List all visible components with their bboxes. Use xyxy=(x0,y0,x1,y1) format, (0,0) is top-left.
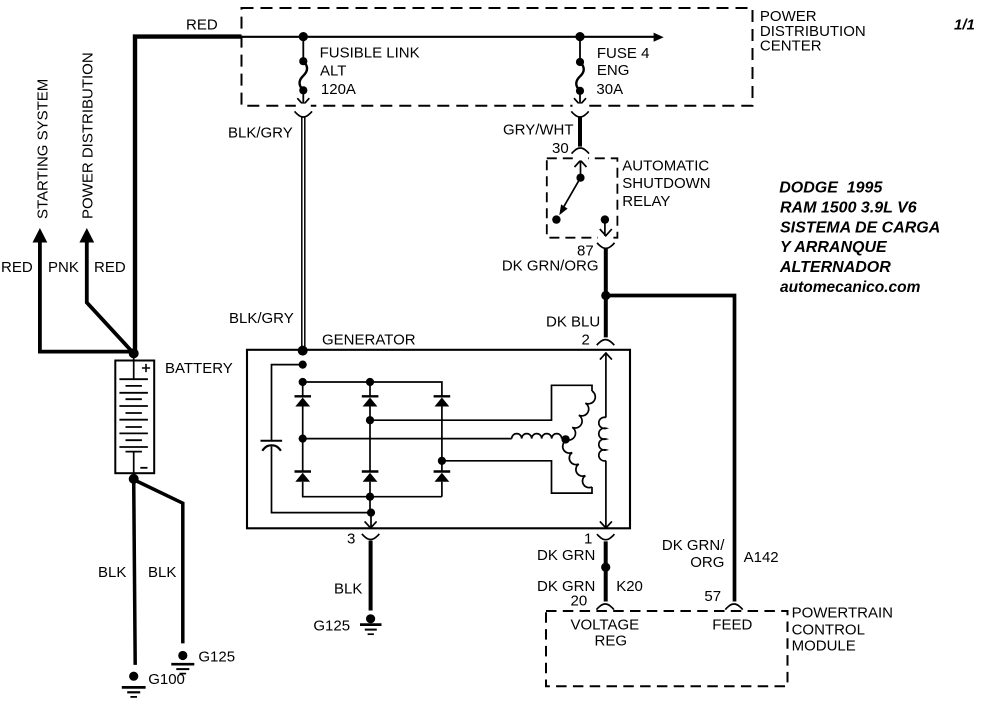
svg-text:G125: G125 xyxy=(313,618,350,635)
svg-text:CENTER: CENTER xyxy=(760,37,822,54)
svg-text:RELAY: RELAY xyxy=(622,193,670,210)
svg-text:RED: RED xyxy=(186,17,218,34)
svg-text:2: 2 xyxy=(582,331,590,348)
svg-text:57: 57 xyxy=(704,588,721,605)
svg-text:BLK/GRY: BLK/GRY xyxy=(229,310,294,327)
svg-text:DODGE 1995: DODGE 1995 xyxy=(779,179,883,196)
svg-text:ALTERNADOR: ALTERNADOR xyxy=(779,259,891,276)
svg-text:BLK: BLK xyxy=(148,564,176,581)
svg-text:ENG: ENG xyxy=(597,62,630,79)
svg-text:20: 20 xyxy=(571,593,588,610)
svg-text:DK GRN/: DK GRN/ xyxy=(662,537,725,554)
svg-text:G100: G100 xyxy=(148,671,185,688)
svg-text:A142: A142 xyxy=(744,549,779,566)
svg-text:30A: 30A xyxy=(596,81,623,98)
svg-text:REG: REG xyxy=(595,632,628,649)
svg-text:ORG: ORG xyxy=(690,554,724,571)
svg-text:1: 1 xyxy=(584,531,592,548)
svg-text:AUTOMATIC: AUTOMATIC xyxy=(622,157,709,174)
svg-text:BLK: BLK xyxy=(98,564,126,581)
svg-text:SISTEMA DE CARGA: SISTEMA DE CARGA xyxy=(780,219,940,236)
svg-text:CONTROL: CONTROL xyxy=(792,622,865,639)
svg-text:1/1: 1/1 xyxy=(954,17,975,34)
svg-text:ALT: ALT xyxy=(320,63,346,80)
svg-text:RED: RED xyxy=(94,259,126,276)
svg-text:STARTING SYSTEM: STARTING SYSTEM xyxy=(35,79,52,219)
svg-text:120A: 120A xyxy=(321,81,356,98)
svg-text:DK GRN: DK GRN xyxy=(537,547,595,564)
svg-text:VOLTAGE: VOLTAGE xyxy=(571,617,640,634)
svg-text:30: 30 xyxy=(552,140,569,157)
svg-text:GENERATOR: GENERATOR xyxy=(322,331,416,348)
svg-text:BLK: BLK xyxy=(334,581,362,598)
svg-text:FEED: FEED xyxy=(712,617,752,634)
svg-text:POWER DISTRIBUTION: POWER DISTRIBUTION xyxy=(80,52,97,219)
svg-text:RAM 1500 3.9L V6: RAM 1500 3.9L V6 xyxy=(780,200,917,217)
svg-text:3: 3 xyxy=(347,531,355,548)
svg-text:automecanico.com: automecanico.com xyxy=(780,279,921,296)
svg-text:K20: K20 xyxy=(616,578,643,595)
svg-text:FUSE 4: FUSE 4 xyxy=(597,45,650,62)
svg-text:Y ARRANQUE: Y ARRANQUE xyxy=(780,239,888,256)
svg-text:RED: RED xyxy=(1,259,33,276)
svg-text:BLK/GRY: BLK/GRY xyxy=(228,124,293,141)
svg-text:FUSIBLE LINK: FUSIBLE LINK xyxy=(320,44,420,61)
svg-text:G125: G125 xyxy=(198,649,235,666)
svg-text:BATTERY: BATTERY xyxy=(165,360,233,377)
svg-text:PNK: PNK xyxy=(48,259,79,276)
svg-text:SHUTDOWN: SHUTDOWN xyxy=(622,175,710,192)
svg-text:DK GRN/ORG: DK GRN/ORG xyxy=(502,257,599,274)
svg-text:POWERTRAIN: POWERTRAIN xyxy=(792,605,893,622)
svg-text:DK BLU: DK BLU xyxy=(546,314,600,331)
svg-text:MODULE: MODULE xyxy=(792,638,856,655)
svg-text:GRY/WHT: GRY/WHT xyxy=(503,122,574,139)
